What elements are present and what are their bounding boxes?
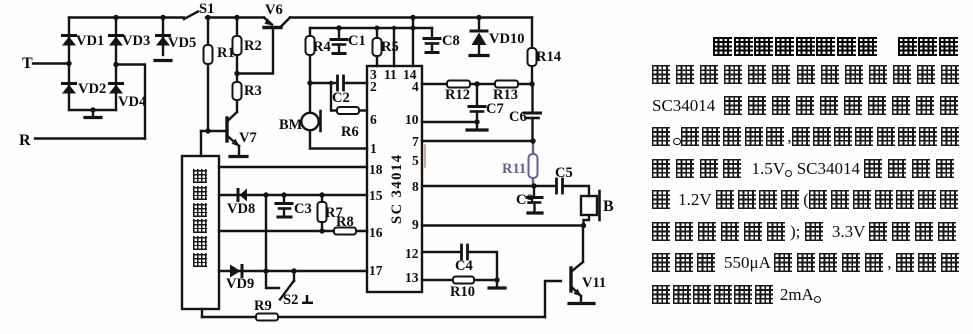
resistor R5 xyxy=(373,28,382,66)
wire pin10 line xyxy=(422,121,477,123)
svg-text:V6: V6 xyxy=(265,2,283,18)
wire pin9 line xyxy=(422,224,584,226)
svg-text:V11: V11 xyxy=(582,275,606,291)
svg-text:16: 16 xyxy=(369,225,383,240)
wire bottom rail riser to V11 base xyxy=(545,281,561,317)
svg-text:C5: C5 xyxy=(555,165,573,181)
ground mark near S2 label xyxy=(302,295,313,303)
svg-text:VD9: VD9 xyxy=(226,276,254,292)
svg-text:11: 11 xyxy=(384,67,397,82)
resistor R2 body xyxy=(233,36,242,55)
svg-text:5: 5 xyxy=(412,153,419,168)
svg-text:R11: R11 xyxy=(502,161,526,177)
svg-text:R6: R6 xyxy=(341,124,359,140)
switch S2 xyxy=(266,271,294,300)
wire bottom rail xyxy=(202,316,545,318)
resistor R13 xyxy=(495,81,518,88)
svg-text:8: 8 xyxy=(412,179,419,194)
capacitor C9 xyxy=(527,186,542,213)
receiver B xyxy=(581,191,600,226)
diode VD4 xyxy=(108,82,124,94)
svg-text:SC 34014: SC 34014 xyxy=(389,154,405,224)
wire pin15 line xyxy=(219,194,367,196)
ground bridge center xyxy=(85,110,101,118)
IC U1 pin numbers top xyxy=(369,67,419,285)
svg-text:17: 17 xyxy=(369,263,383,278)
wire pin7 line xyxy=(422,140,533,142)
svg-text:1: 1 xyxy=(370,141,377,156)
svg-text:9: 9 xyxy=(412,217,419,232)
transistor V6 xyxy=(238,18,290,74)
capacitor C2 xyxy=(310,76,367,90)
wire pin11 drop xyxy=(393,28,395,66)
wire pin16 line xyxy=(219,230,367,232)
svg-text:2: 2 xyxy=(370,79,377,94)
wire VD3/VD4 midpoint jog to R line xyxy=(116,65,145,139)
svg-text:7: 7 xyxy=(412,134,419,149)
svg-text:15: 15 xyxy=(369,188,383,203)
svg-text:VD8: VD8 xyxy=(227,201,255,217)
svg-text:C8: C8 xyxy=(442,33,460,49)
wire VD1-VD2 branch xyxy=(68,18,70,111)
svg-text:VD10: VD10 xyxy=(489,31,524,47)
svg-text:C4: C4 xyxy=(455,258,473,274)
resistor R8 xyxy=(334,228,356,235)
wire dialer box to bottom rail xyxy=(201,309,203,317)
svg-text:R5: R5 xyxy=(381,39,399,55)
transistor V11 xyxy=(569,226,594,304)
svg-text:VD4: VD4 xyxy=(118,94,146,110)
wire pin14 drop xyxy=(412,18,414,67)
capacitor C3 xyxy=(276,195,292,217)
svg-text:VD2: VD2 xyxy=(78,81,106,97)
svg-text:C3: C3 xyxy=(294,201,312,217)
resistor R4 xyxy=(306,28,315,83)
svg-text:R1: R1 xyxy=(217,45,235,61)
svg-text:13: 13 xyxy=(405,270,419,285)
wire pin1 line xyxy=(310,147,367,149)
svg-text:R9: R9 xyxy=(254,298,272,314)
svg-text:B: B xyxy=(603,198,614,215)
diode VD9 xyxy=(230,264,244,278)
ground VD5 xyxy=(155,59,171,62)
node R terminal wire xyxy=(35,137,145,139)
svg-text:R10: R10 xyxy=(450,284,475,300)
wire pin18 line xyxy=(219,166,367,168)
wire sub-rail xyxy=(310,27,432,29)
resistor R11 xyxy=(529,141,538,186)
diode VD8 xyxy=(237,188,248,202)
svg-text:12: 12 xyxy=(405,246,419,261)
diode VD2 xyxy=(61,82,77,94)
resistor R6 xyxy=(331,83,367,114)
capacitor C1 xyxy=(331,28,347,54)
svg-text:R3: R3 xyxy=(244,83,262,99)
red mark pin5 xyxy=(424,145,426,167)
capacitor C8 xyxy=(424,28,440,53)
svg-text:R2: R2 xyxy=(244,38,262,54)
svg-text:T: T xyxy=(22,55,33,72)
svg-text:C1: C1 xyxy=(348,33,366,49)
svg-text:BM: BM xyxy=(279,117,303,133)
wire R2 branch xyxy=(236,18,238,74)
capacitor C6 xyxy=(525,84,541,141)
resistor R10 xyxy=(422,277,497,284)
capacitor C7 xyxy=(467,84,487,130)
wire pin8 line xyxy=(422,185,556,187)
resistor R12 xyxy=(447,81,470,88)
wire pin17 line xyxy=(219,270,367,272)
svg-text:VD5: VD5 xyxy=(168,35,196,51)
diode VD5 xyxy=(155,34,171,46)
svg-text:R: R xyxy=(19,132,31,149)
wire pin4 line xyxy=(422,83,532,85)
resistor R9 xyxy=(256,314,278,321)
svg-text:R4: R4 xyxy=(313,39,331,55)
wire R3 branch xyxy=(236,74,238,113)
wire bridge bottom link xyxy=(69,109,116,111)
IC U1 SC34014 box xyxy=(367,66,422,292)
svg-text:S2: S2 xyxy=(283,292,298,308)
resistor R3 body xyxy=(233,82,242,100)
svg-text:C2: C2 xyxy=(332,90,350,106)
svg-text:VD1: VD1 xyxy=(76,33,104,49)
svg-text:VD3: VD3 xyxy=(122,33,150,49)
microphone BM xyxy=(301,83,320,149)
wire top rail right segment xyxy=(206,16,532,18)
resistor R14 xyxy=(528,18,537,85)
diode VD1 xyxy=(61,34,77,46)
wire VD5 branch xyxy=(162,18,164,56)
diode VD3 xyxy=(108,34,124,46)
description text column xyxy=(713,37,960,58)
wire VD8-VD9 vertical link xyxy=(265,195,267,271)
capacitor C4 xyxy=(422,245,497,280)
resistor R1 body xyxy=(204,45,213,64)
svg-text:C9: C9 xyxy=(516,192,534,208)
svg-text:V7: V7 xyxy=(239,130,257,146)
svg-text:6: 6 xyxy=(370,112,377,127)
svg-text:R8: R8 xyxy=(336,214,354,230)
capacitor C5 xyxy=(557,179,590,196)
dialer box vertical text 拨号集成电路 xyxy=(193,169,207,270)
svg-text:4: 4 xyxy=(412,79,419,94)
svg-text:18: 18 xyxy=(369,162,383,177)
svg-text:C7: C7 xyxy=(486,101,504,117)
svg-text:R12: R12 xyxy=(445,87,470,103)
svg-text:R14: R14 xyxy=(536,49,561,65)
svg-text:10: 10 xyxy=(405,112,419,127)
switch S1 xyxy=(184,12,198,20)
resistor R7 xyxy=(318,195,327,231)
wire VD3-VD4 branch xyxy=(115,18,117,111)
node T terminal wire xyxy=(33,62,69,64)
wire R1 branch xyxy=(207,18,209,132)
diode VD10 xyxy=(470,18,488,56)
transistor V7 xyxy=(201,112,247,157)
wire top rail left segment xyxy=(69,16,184,18)
wire V7 base to dialer box xyxy=(200,131,202,156)
svg-text:S1: S1 xyxy=(199,1,214,17)
svg-text:C6: C6 xyxy=(509,109,527,125)
ground R10/C4 xyxy=(489,280,505,288)
dialer IC box xyxy=(182,156,219,309)
